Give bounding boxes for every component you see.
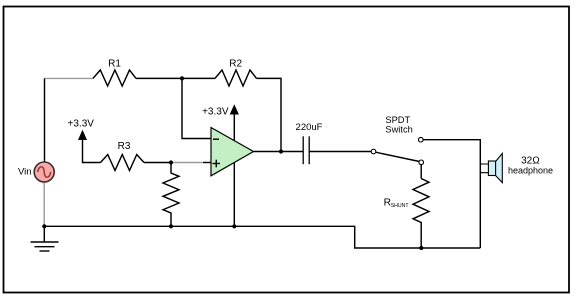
svg-text:R3: R3 [118, 141, 131, 152]
svg-text:R1: R1 [108, 58, 121, 69]
svg-text:Switch: Switch [385, 125, 412, 135]
svg-text:+3.3V: +3.3V [68, 119, 95, 130]
svg-text:R2: R2 [229, 58, 242, 69]
svg-text:SHUNT: SHUNT [391, 203, 410, 209]
svg-text:headphone: headphone [508, 166, 553, 176]
svg-text:Vin: Vin [18, 167, 32, 178]
svg-text:220uF: 220uF [296, 122, 323, 133]
svg-text:+3.3V: +3.3V [202, 107, 229, 118]
svg-text:SPDT: SPDT [385, 115, 410, 125]
